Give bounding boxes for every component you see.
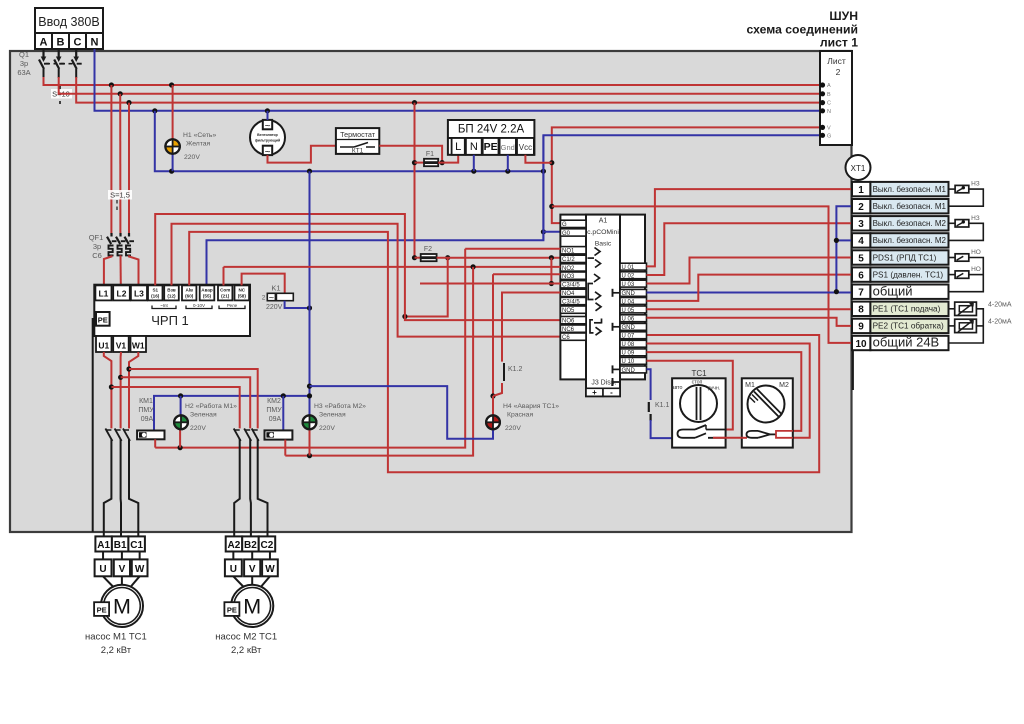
svg-text:ручн.: ручн. <box>708 386 721 392</box>
svg-text:N: N <box>470 141 478 153</box>
svg-text:NO3: NO3 <box>562 274 575 280</box>
svg-text:QF1: QF1 <box>89 233 104 242</box>
svg-text:C3/4/5: C3/4/5 <box>562 283 580 289</box>
svg-text:PS1 (давлен. ТС1): PS1 (давлен. ТС1) <box>873 270 944 279</box>
svg-text:A1: A1 <box>599 218 608 225</box>
svg-text:фильтрующий: фильтрующий <box>255 139 280 143</box>
svg-text:(21): (21) <box>221 294 230 299</box>
svg-text:Лист: Лист <box>827 56 846 66</box>
svg-text:GND: GND <box>622 291 636 297</box>
svg-text:-: - <box>610 388 613 397</box>
svg-text:NO1: NO1 <box>562 249 575 255</box>
svg-text:общий: общий <box>873 283 913 298</box>
svg-text:+: + <box>592 388 597 397</box>
svg-text:2,2 кВт: 2,2 кВт <box>231 645 262 656</box>
svg-text:М1: М1 <box>745 382 755 389</box>
svg-text:~Int: ~Int <box>160 303 168 308</box>
svg-text:КТ1: КТ1 <box>352 148 364 155</box>
svg-text:U 06: U 06 <box>622 317 635 323</box>
svg-text:Взв: Взв <box>167 288 176 293</box>
svg-text:M: M <box>243 595 261 619</box>
svg-text:U 04: U 04 <box>622 299 635 305</box>
svg-text:S=1,5: S=1,5 <box>110 191 130 200</box>
svg-text:ПМУ: ПМУ <box>266 407 282 414</box>
svg-text:Alв: Alв <box>185 288 193 293</box>
svg-text:4: 4 <box>858 236 864 247</box>
svg-text:PE1 (ТС1 подача): PE1 (ТС1 подача) <box>873 305 941 314</box>
svg-text:V: V <box>827 125 831 131</box>
svg-text:(55): (55) <box>203 294 212 299</box>
svg-text:Зеленая: Зеленая <box>190 412 217 419</box>
svg-text:NC: NC <box>238 288 245 293</box>
svg-text:U 09: U 09 <box>622 351 635 357</box>
svg-text:V1: V1 <box>116 341 127 351</box>
svg-text:(12): (12) <box>167 294 176 299</box>
svg-text:Q1: Q1 <box>19 50 29 59</box>
svg-text:Basic: Basic <box>595 241 612 248</box>
svg-text:K1.2: K1.2 <box>508 366 523 373</box>
svg-text:W: W <box>265 564 275 575</box>
svg-text:2: 2 <box>262 295 266 302</box>
svg-text:C6: C6 <box>92 251 102 260</box>
svg-text:Красная: Красная <box>507 412 533 419</box>
svg-text:U1: U1 <box>98 341 109 351</box>
svg-text:PDS1 (РПД ТС1): PDS1 (РПД ТС1) <box>873 253 937 262</box>
svg-text:U 08: U 08 <box>622 342 635 348</box>
svg-text:C1: C1 <box>130 540 143 551</box>
svg-text:КМ2: КМ2 <box>267 398 281 405</box>
svg-text:10: 10 <box>855 339 867 350</box>
svg-text:G: G <box>827 133 831 139</box>
svg-text:Н2 «Работа М1»: Н2 «Работа М1» <box>185 402 237 410</box>
svg-text:L1: L1 <box>98 289 108 299</box>
svg-text:L: L <box>455 141 461 153</box>
svg-text:Ввод 380В: Ввод 380В <box>38 15 99 29</box>
svg-text:(16): (16) <box>151 294 160 299</box>
svg-text:6: 6 <box>858 270 864 281</box>
svg-text:GND: GND <box>622 325 636 331</box>
svg-text:Н3 «Работа М2»: Н3 «Работа М2» <box>314 402 366 410</box>
svg-text:A2: A2 <box>228 540 241 551</box>
svg-text:НЗ: НЗ <box>971 215 980 222</box>
svg-text:PE: PE <box>227 605 237 614</box>
svg-text:C3/4/5: C3/4/5 <box>562 299 580 305</box>
svg-text:3: 3 <box>858 219 864 230</box>
svg-text:J3 Disp.: J3 Disp. <box>591 380 616 387</box>
svg-text:~: ~ <box>265 121 271 132</box>
svg-text:(60): (60) <box>185 294 194 299</box>
svg-text:Термостат: Термостат <box>340 130 376 139</box>
svg-text:09А: 09А <box>269 416 282 423</box>
svg-text:ШУН: ШУН <box>829 9 858 23</box>
svg-text:U 03: U 03 <box>622 282 635 288</box>
svg-text:W1: W1 <box>132 341 145 351</box>
svg-text:W: W <box>135 564 145 575</box>
svg-text:L2: L2 <box>117 289 127 299</box>
svg-text:B: B <box>827 92 831 98</box>
svg-text:C: C <box>74 37 82 49</box>
svg-text:63А: 63А <box>17 68 30 77</box>
svg-text:ЧРП 1: ЧРП 1 <box>151 313 189 328</box>
svg-text:Vcc: Vcc <box>519 143 532 152</box>
svg-text:NO6: NO6 <box>562 319 575 325</box>
svg-text:НО: НО <box>971 266 981 273</box>
svg-text:B: B <box>57 37 65 49</box>
svg-text:220V: 220V <box>505 425 521 432</box>
svg-text:Выкл. безопасн. М2: Выкл. безопасн. М2 <box>873 219 947 228</box>
svg-text:8: 8 <box>858 305 864 316</box>
svg-text:Com: Com <box>220 288 230 293</box>
svg-text:C6: C6 <box>562 335 570 341</box>
svg-text:2: 2 <box>858 202 864 213</box>
svg-text:БП 24V 2.2А: БП 24V 2.2А <box>458 124 525 136</box>
svg-text:лист 1: лист 1 <box>820 35 858 49</box>
svg-text:Выкл. безопасн. М2: Выкл. безопасн. М2 <box>873 236 947 245</box>
svg-text:U: U <box>230 564 237 575</box>
svg-text:NO4: NO4 <box>562 291 575 297</box>
svg-text:B2: B2 <box>244 540 257 551</box>
svg-text:~: ~ <box>269 293 274 303</box>
svg-text:U 10: U 10 <box>622 359 635 365</box>
svg-text:C: C <box>827 101 831 107</box>
svg-text:B1: B1 <box>114 540 127 551</box>
svg-text:ТС1: ТС1 <box>691 369 707 378</box>
svg-text:Желтая: Желтая <box>186 141 211 148</box>
svg-text:ПМУ: ПМУ <box>138 407 154 414</box>
svg-text:09А: 09А <box>141 416 154 423</box>
svg-text:A1: A1 <box>97 540 110 551</box>
svg-text:F2: F2 <box>424 246 432 253</box>
svg-text:NO5: NO5 <box>562 308 575 314</box>
svg-text:N: N <box>827 109 831 115</box>
svg-text:стоп: стоп <box>692 380 703 386</box>
svg-text:Реле: Реле <box>227 303 238 308</box>
svg-text:2,2 кВт: 2,2 кВт <box>101 645 132 656</box>
svg-text:NO2: NO2 <box>562 266 575 272</box>
svg-text:7: 7 <box>858 288 864 299</box>
svg-text:Зеленая: Зеленая <box>319 412 346 419</box>
svg-text:K1: K1 <box>271 284 280 293</box>
svg-text:C1/2: C1/2 <box>562 257 575 263</box>
svg-text:U 02: U 02 <box>622 274 635 280</box>
svg-text:насос М2 ТС1: насос М2 ТС1 <box>215 632 277 643</box>
svg-text:L3: L3 <box>134 289 144 299</box>
svg-text:U 07: U 07 <box>622 334 635 340</box>
svg-text:общий 24В: общий 24В <box>873 335 940 350</box>
svg-text:(58): (58) <box>238 294 247 299</box>
svg-text:0-10V: 0-10V <box>193 303 205 308</box>
svg-text:9: 9 <box>858 322 864 333</box>
svg-text:PE: PE <box>484 141 498 153</box>
svg-text:Выкл. безопасн. М1: Выкл. безопасн. М1 <box>873 185 947 194</box>
svg-text:2: 2 <box>836 67 841 77</box>
svg-text:М2: М2 <box>779 382 789 389</box>
svg-text:K1.1: K1.1 <box>655 402 670 409</box>
svg-text:M: M <box>113 595 131 619</box>
svg-text:A: A <box>40 37 48 49</box>
svg-text:авто: авто <box>672 385 683 391</box>
svg-text:S1: S1 <box>152 288 158 293</box>
svg-text:3p: 3p <box>93 242 101 251</box>
svg-text:H1 «Сеть»: H1 «Сеть» <box>183 132 216 139</box>
svg-text:V: V <box>119 564 126 575</box>
svg-text:Выкл. безопасн. М1: Выкл. безопасн. М1 <box>873 202 947 211</box>
svg-text:220V: 220V <box>184 154 200 161</box>
svg-text:3p: 3p <box>20 59 28 68</box>
svg-text:G0: G0 <box>562 231 571 237</box>
svg-text:220V: 220V <box>319 425 335 432</box>
svg-text:PE2 (ТС1 обратка): PE2 (ТС1 обратка) <box>873 322 944 331</box>
svg-text:U 05: U 05 <box>622 308 635 314</box>
svg-text:U: U <box>99 564 106 575</box>
svg-text:V: V <box>249 564 256 575</box>
svg-text:4-20мА: 4-20мА <box>988 319 1012 326</box>
svg-text:4-20мА: 4-20мА <box>988 302 1012 309</box>
svg-text:PE: PE <box>98 316 108 325</box>
svg-text:НЗ: НЗ <box>971 181 980 188</box>
svg-text:5: 5 <box>858 253 864 264</box>
svg-text:U 01: U 01 <box>622 265 635 271</box>
svg-text:G: G <box>562 222 567 228</box>
svg-text:Н4 «Авария ТС1»: Н4 «Авария ТС1» <box>503 403 559 410</box>
svg-text:КМ1: КМ1 <box>139 398 153 405</box>
svg-text:Авар: Авар <box>201 288 213 293</box>
svg-text:1: 1 <box>858 185 864 196</box>
svg-text:НО: НО <box>971 249 981 256</box>
svg-text:Gnd: Gnd <box>501 143 515 152</box>
svg-text:Вентилятор: Вентилятор <box>257 133 278 137</box>
svg-text:C2: C2 <box>261 540 274 551</box>
svg-text:F1: F1 <box>426 151 434 158</box>
svg-text:c.pCOMini: c.pCOMini <box>587 229 619 236</box>
svg-text:220V: 220V <box>266 304 283 311</box>
svg-text:GND: GND <box>622 368 636 374</box>
svg-text:A: A <box>827 83 831 89</box>
svg-text:N: N <box>91 37 99 49</box>
svg-text:NC6: NC6 <box>562 327 575 333</box>
svg-text:XT1: XT1 <box>851 164 866 173</box>
svg-text:насос М1 ТС1: насос М1 ТС1 <box>85 632 147 643</box>
svg-text:PE: PE <box>97 605 107 614</box>
svg-text:220V: 220V <box>190 425 206 432</box>
